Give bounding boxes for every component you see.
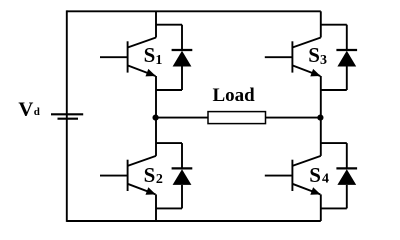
wire S4 emitter to bottom rail [320,194,322,221]
wire S4 collector (from node B) [320,118,322,156]
wire top rail [67,10,321,12]
diode D1 (antiparallel with S1) [172,50,193,67]
label S1 [144,43,163,68]
transistor S3 [265,38,321,77]
wire D2 bottom branch [156,185,182,209]
wire bottom rail [67,220,321,222]
svg-text:V: V [18,98,34,120]
wire node A to load [156,117,208,119]
wire D1 bottom branch [156,67,182,91]
svg-text:S: S [308,43,320,67]
wire D3 bottom branch [321,67,347,91]
wire S2 emitter to bottom rail [155,194,157,221]
svg-text:3: 3 [320,53,327,68]
wire S2 collector (from node A) [155,118,157,156]
label Vd [18,98,40,120]
diode D3 (antiparallel with S3) [336,50,357,67]
label Load [213,85,256,106]
svg-text:S: S [309,163,321,187]
wire S1 emitter to node A [155,76,157,118]
label S2 [144,163,163,187]
resistor Load [208,112,266,124]
transistor S1 [100,38,156,77]
svg-text:2: 2 [156,172,163,187]
svg-text:4: 4 [322,172,329,187]
svg-text:S: S [144,43,156,67]
wire D3 top branch [321,25,347,50]
transistor S2 [100,156,156,195]
node B (right midpoint junction) [317,115,323,121]
transistor S4 [265,156,321,195]
diode D2 (antiparallel with S2) [172,168,193,185]
node A (left midpoint junction) [153,115,159,121]
label S4 [309,163,329,187]
wire S3 emitter to node B [320,76,322,118]
svg-text:d: d [34,106,40,118]
wire D2 top branch [156,143,182,168]
wire S1 collector (from top rail) [155,11,157,37]
wire D4 top branch [321,143,347,168]
svg-text:1: 1 [155,53,162,68]
svg-text:Load: Load [213,85,256,106]
battery Vd [51,114,83,118]
svg-text:S: S [144,163,156,187]
diode D4 (antiparallel with S4) [336,168,357,185]
wire S3 collector (from top rail) [320,11,322,37]
wire left rail [66,10,68,222]
wire D1 top branch [156,25,182,50]
wire load to node B [266,117,321,119]
wire D4 bottom branch [321,185,347,209]
label S3 [308,43,327,68]
